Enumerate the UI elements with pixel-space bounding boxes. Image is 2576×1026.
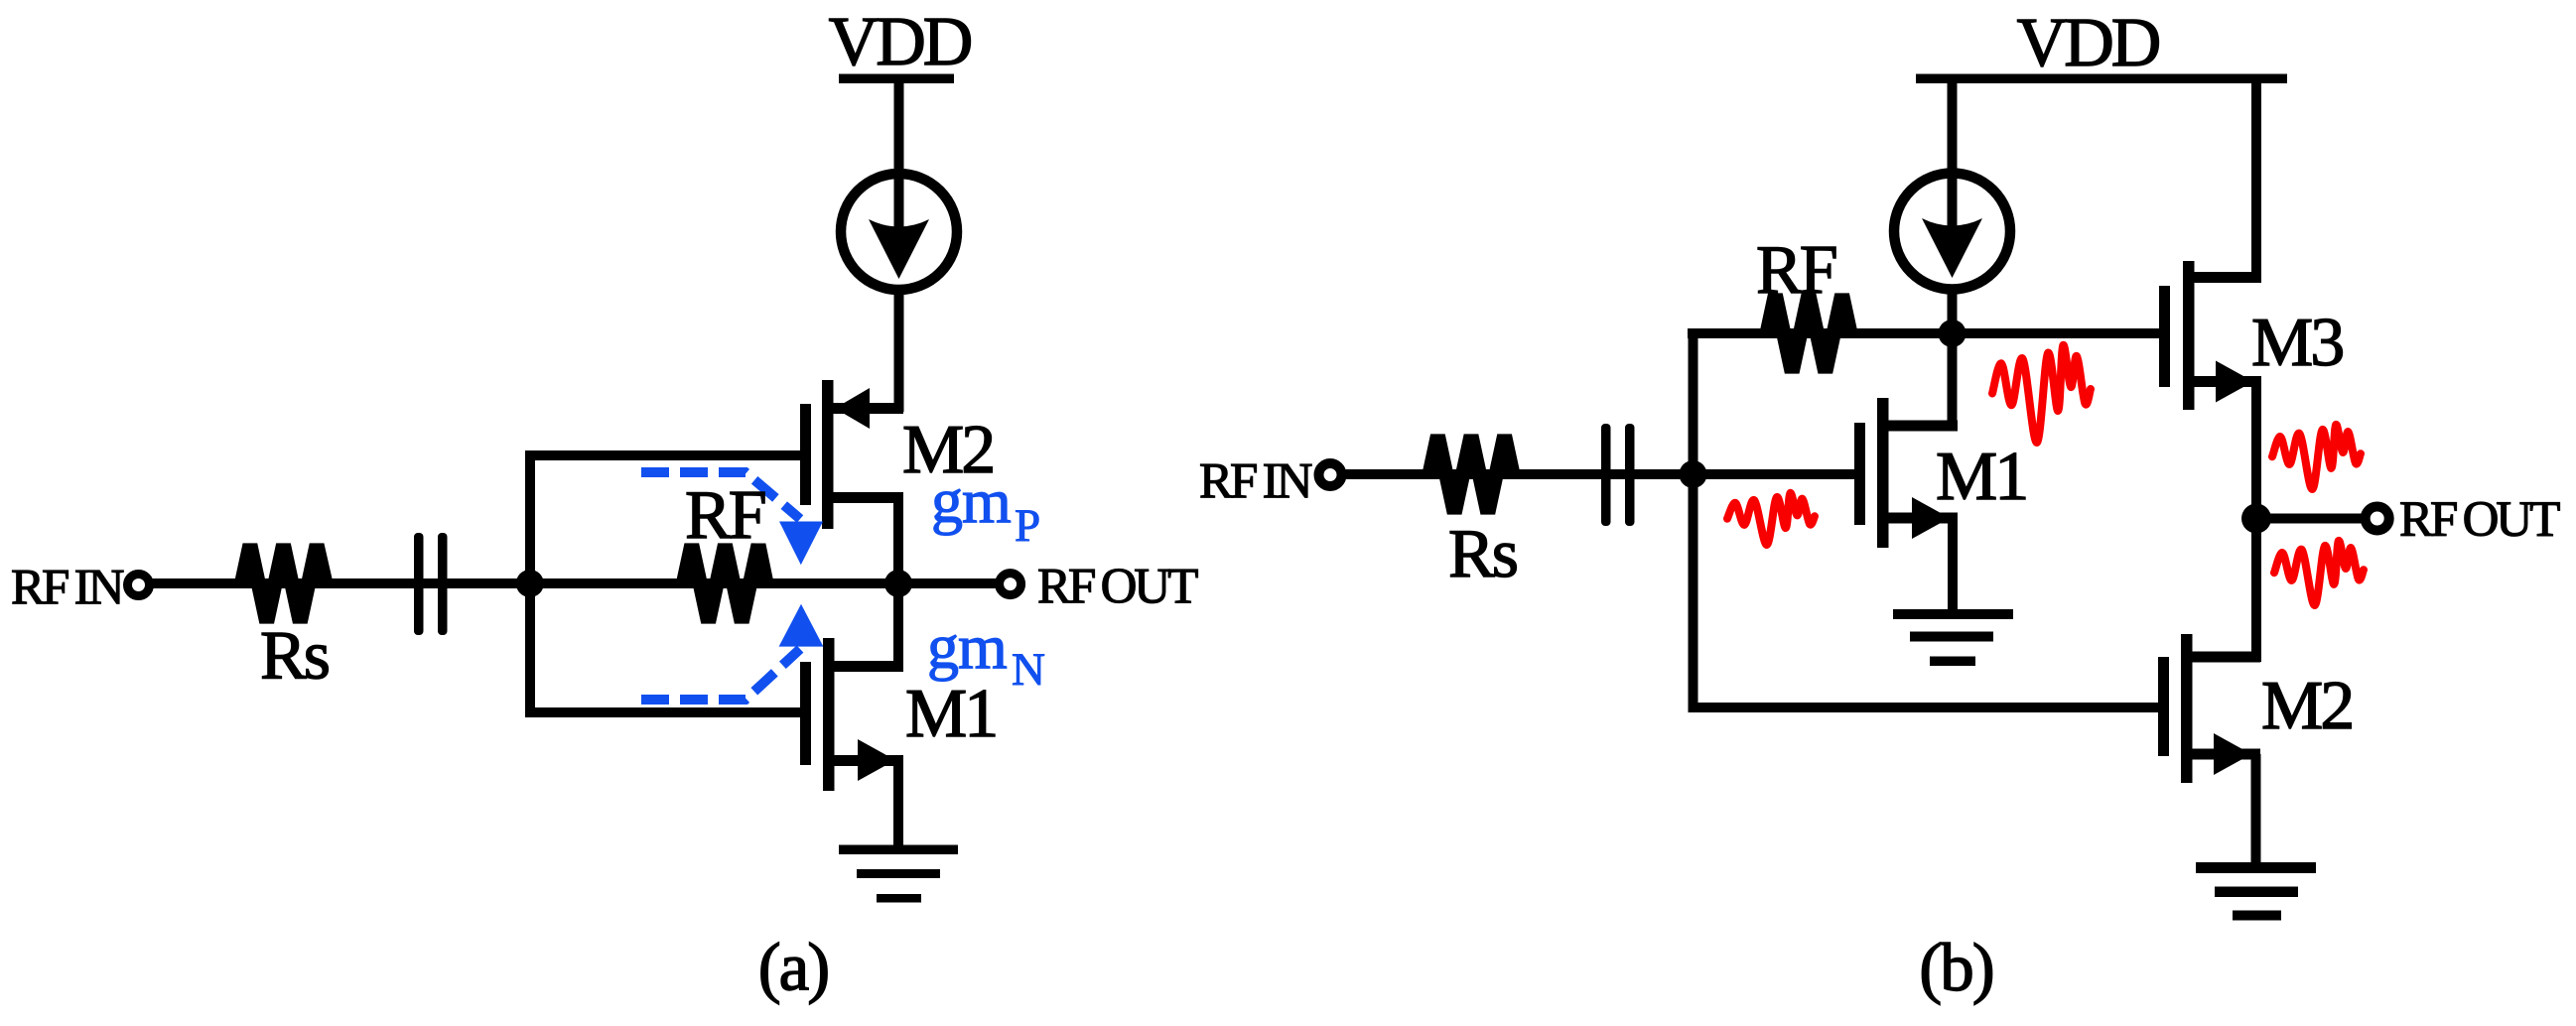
svg-text:Rs: Rs — [1448, 516, 1517, 592]
svg-text:RF OUT: RF OUT — [1037, 560, 1198, 615]
svg-text:VDD: VDD — [2017, 5, 2159, 81]
svg-text:gm: gm — [931, 465, 1011, 536]
svg-text:P: P — [1015, 500, 1040, 552]
svg-text:RF: RF — [685, 477, 765, 554]
svg-text:gm: gm — [927, 611, 1007, 682]
svg-text:(a): (a) — [758, 930, 829, 1005]
svg-text:M3: M3 — [2251, 305, 2343, 381]
svg-text:M1: M1 — [905, 676, 996, 752]
svg-text:M1: M1 — [1936, 439, 2026, 515]
svg-text:RF IN: RF IN — [1199, 454, 1312, 510]
svg-text:Rs: Rs — [260, 618, 329, 695]
svg-text:RF OUT: RF OUT — [2399, 492, 2560, 548]
svg-text:VDD: VDD — [829, 4, 971, 80]
svg-text:N: N — [1012, 644, 1045, 696]
svg-text:RF IN: RF IN — [11, 561, 124, 616]
svg-text:(b): (b) — [1919, 930, 1992, 1005]
svg-text:M2: M2 — [2261, 668, 2352, 744]
svg-text:RF: RF — [1756, 232, 1836, 309]
